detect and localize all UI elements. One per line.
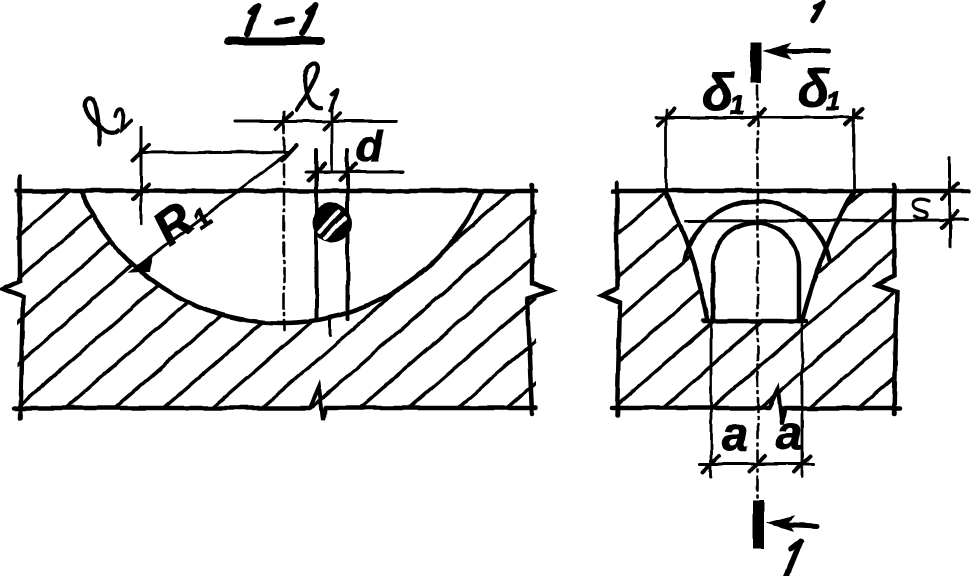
svg-text:a: a	[722, 407, 748, 460]
svg-text:1: 1	[730, 90, 744, 120]
section mark top: arrow	[772, 49, 829, 54]
title underline	[228, 37, 321, 45]
depth dim far right: vertical line	[949, 157, 952, 247]
block top surface	[17, 189, 536, 194]
depth dim ticks	[942, 183, 958, 228]
svg-text:a: a	[776, 406, 802, 459]
dim a: line	[700, 463, 813, 466]
section mark bottom: arrow	[776, 524, 817, 526]
loop inner arch	[713, 223, 799, 321]
dim l1 extension stubs	[284, 106, 332, 170]
recess bottom	[704, 319, 806, 324]
dim l2 horizontal extension at pin top level	[141, 152, 289, 153]
dim l1 ticks	[276, 113, 340, 129]
bottom edge break	[769, 389, 785, 424]
pin rod cross-section circle	[314, 204, 351, 241]
bottom edge	[612, 406, 900, 411]
centerline (dash-dot)	[756, 86, 759, 497]
dim l1: line	[235, 120, 397, 123]
svg-text:1: 1	[826, 86, 840, 116]
depth reference line at arch apex level	[686, 220, 968, 221]
right edge with break	[877, 185, 897, 414]
dim d ticks	[309, 164, 356, 180]
label l1 (script l)	[297, 63, 321, 110]
dim b1 ticks	[658, 109, 862, 125]
loop pin right edge	[346, 150, 350, 319]
section label 1 (bottom)	[787, 541, 801, 575]
label R1 (rotated)	[144, 183, 217, 257]
hatching right block	[348, 174, 973, 426]
top surface (extends right to depth dim)	[613, 189, 968, 194]
R1 leader line with arrow	[136, 152, 289, 268]
dim a ticks	[703, 456, 810, 472]
dim l2 ticks	[133, 145, 296, 199]
loop pin left edge	[315, 150, 319, 318]
loop outer dome	[685, 201, 830, 260]
dim b1 extensions	[666, 110, 854, 198]
left edge with break	[602, 183, 620, 416]
section mark top: thick tick	[751, 42, 762, 83]
arc recess	[81, 191, 482, 323]
dim a: extension verticals	[711, 321, 802, 477]
funnel recess left wall	[664, 191, 708, 321]
label l2 (script l, rotated)	[74, 85, 132, 144]
section label 1 (top)	[813, 2, 823, 21]
svg-text:d: d	[356, 122, 384, 171]
dim l2: vertical line	[140, 127, 143, 224]
right edge with break	[527, 185, 551, 414]
dim b1: line	[656, 116, 862, 119]
section mark bottom: thick tick	[753, 500, 764, 549]
centerline (dash-dot)	[283, 112, 286, 330]
depth label glyph (small script s/c)	[913, 199, 929, 218]
section title 1-1	[247, 5, 316, 34]
hatching left block	[0, 174, 776, 426]
bottom edge break	[310, 387, 326, 420]
pin stub below arc	[329, 320, 332, 335]
left edge with break	[3, 176, 23, 418]
block bottom edge	[14, 406, 536, 411]
dim d: line	[307, 171, 403, 174]
funnel recess right wall	[802, 191, 854, 321]
